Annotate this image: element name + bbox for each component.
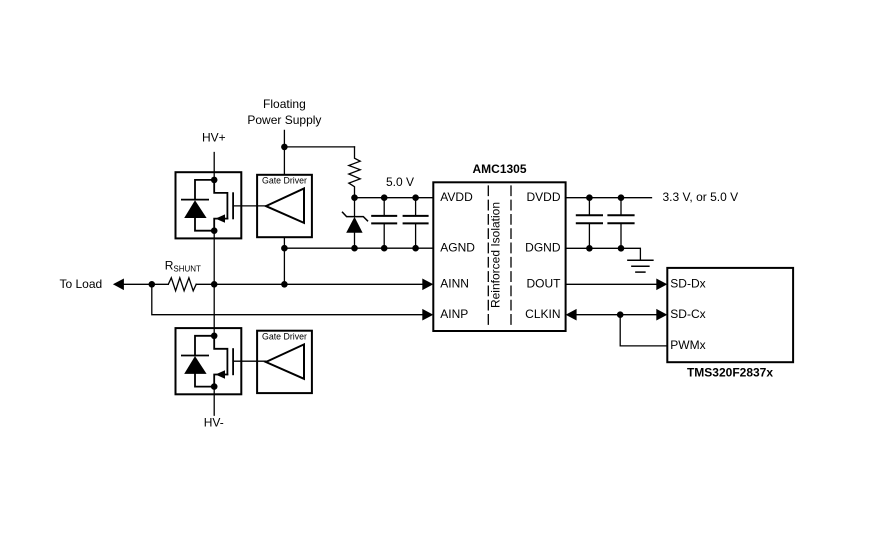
node supply branch junction [281,144,288,151]
wire CLKIN to SD-Cx [577,314,657,316]
node shunt right junction [211,281,218,288]
op-amp U1 AMC1305 box [433,182,565,331]
node AGND junction at gate driver [281,245,288,252]
node AINN junction below gate driver [281,281,288,288]
svg-text:AMC1305: AMC1305 [472,162,526,176]
svg-text:DGND: DGND [525,240,561,254]
svg-text:3.3 V, or 5.0 V: 3.3 V, or 5.0 V [663,190,739,204]
svg-text:SHUNT: SHUNT [173,265,201,274]
wire to-load arrow [113,279,124,291]
svg-text:HV-: HV- [204,415,224,429]
op-amp U2 (top gate driver) [257,175,312,237]
node AGND rail junctions [351,245,419,252]
wire DOUT to SD-Dx [566,283,657,285]
svg-text:Floating: Floating [263,97,306,111]
svg-text:AINN: AINN [440,277,469,291]
svg-text:To Load: To Load [60,277,103,291]
wire gate driver U2 common down to AGND rail and AINN line [283,237,285,284]
svg-text:Gate Driver: Gate Driver [262,176,307,186]
wire AINP arrow into AMC1305 [422,309,433,321]
svg-text:Reinforced Isolation: Reinforced Isolation [489,202,503,308]
wire Q2 gate to gate driver U3 [233,360,266,362]
wire Q1 gate to gate driver U2 [233,205,266,207]
wire DOUT arrow into TMS320 [656,279,667,291]
transistor Q1 (top IGBT with anti-parallel diode) [176,172,242,238]
processor TMS320F2837x box [667,268,793,362]
svg-text:DOUT: DOUT [527,277,562,291]
wire DVDD rail [566,197,652,199]
svg-text:Power Supply: Power Supply [247,113,321,127]
svg-text:TMS320F2837x: TMS320F2837x [687,366,773,380]
wire AINN arrow into AMC1305 [422,279,433,291]
wire DGND rail to ground [566,248,641,260]
svg-text:Gate Driver: Gate Driver [262,332,307,342]
svg-text:DVDD: DVDD [526,190,560,204]
label Floating Power Supply [247,97,321,127]
capacitor C3 [577,198,602,249]
resistor RSHUNT label [165,259,201,274]
wire AINN line from shunt to AMC1305 [196,283,422,285]
svg-text:HV+: HV+ [202,130,226,144]
svg-text:PWMx: PWMx [670,338,705,352]
ground [628,260,653,272]
wire HV+ to IGBT Q1 collector [213,153,215,180]
wire Q2 emitter to HV- [213,387,215,416]
svg-text:SD-Cx: SD-Cx [670,307,705,321]
wire AVDD rail [355,197,434,199]
transistor Q2 (bottom IGBT with anti-parallel diode) [176,328,242,394]
wire supply branch to resistor R1 [284,146,354,148]
node AVDD rail junctions [351,194,419,201]
zener diode D1 [343,198,368,249]
wire SD-Cx arrow into TMS320 [656,309,667,321]
capacitor C4 [608,198,633,249]
wire AGND rail [284,247,433,249]
wire PWMx feedback [620,315,667,346]
svg-text:CLKIN: CLKIN [525,307,560,321]
svg-text:AGND: AGND [440,240,475,254]
wire AINP line [152,284,423,314]
capacitor C2 [404,198,428,249]
svg-text:5.0 V: 5.0 V [386,175,414,189]
svg-text:AINP: AINP [440,307,468,321]
capacitor C1 [372,198,396,249]
resistor R1 (pull-up to AVDD) [349,147,360,198]
svg-text:SD-Dx: SD-Dx [670,277,705,291]
resistor RSHUNT [168,278,196,291]
node DGND rail junctions [586,245,624,252]
svg-text:AVDD: AVDD [440,190,473,204]
wire CLKIN arrow into AMC1305 [566,309,577,321]
wire to-load line left of shunt [124,283,168,285]
wire IGBT chain vertical [213,231,215,336]
op-amp U3 (bottom gate driver) [257,331,312,393]
wire floating supply vertical to gate driver [283,130,285,174]
node shunt left junction [149,281,156,288]
node DVDD rail junctions [586,194,624,201]
wire isolation barrier dashed lines [488,186,511,329]
node CLK line junction [617,311,624,318]
